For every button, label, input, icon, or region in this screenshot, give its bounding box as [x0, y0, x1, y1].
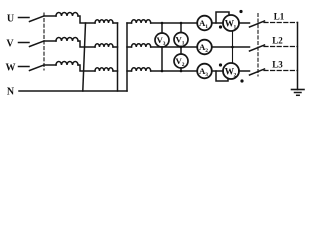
svg-text:L3: L3: [272, 60, 283, 70]
svg-text:W: W: [6, 62, 16, 73]
svg-text:U: U: [7, 13, 14, 24]
svg-text:W2: W2: [225, 68, 237, 79]
svg-text:L2: L2: [272, 36, 283, 46]
svg-text:W1: W1: [225, 20, 237, 31]
svg-text:L1: L1: [274, 12, 285, 22]
svg-text:V: V: [6, 38, 14, 49]
svg-text:N: N: [7, 86, 15, 97]
